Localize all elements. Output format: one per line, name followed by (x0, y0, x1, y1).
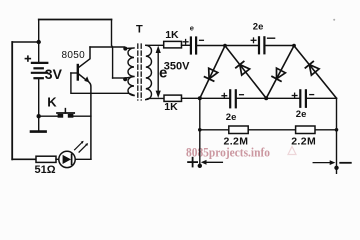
diode D4 cathode bar (305, 62, 313, 68)
diode D3 line (266, 46, 294, 99)
node D bottom rail (264, 96, 268, 100)
ground bar (31, 130, 46, 133)
capacitor C3 plate right (235, 90, 237, 107)
diode D3 cathode bar (272, 77, 281, 82)
battery plus sign (25, 56, 30, 61)
capacitor C2 minus (268, 37, 275, 39)
svg-text:2e: 2e (226, 112, 237, 123)
capacitor C4 plate left (299, 90, 301, 107)
wire node A to C2 (225, 45, 258, 47)
wire to left frame (12, 41, 39, 43)
wire center tap (113, 77, 126, 79)
output minus sign (340, 162, 351, 164)
output minus arrow (313, 162, 331, 164)
resistor R2 1K bottom (164, 95, 182, 101)
wire top rail drop to center tap (112, 20, 113, 79)
wire C3 to node D (236, 97, 266, 99)
wire switch right (73, 115, 91, 117)
wire resistor to LED (56, 158, 59, 160)
switch K actuator bar (57, 112, 74, 114)
EMF arrowhead down (156, 91, 161, 98)
diode D2 cathode bar (236, 62, 244, 68)
lower rail 2.2M (200, 129, 337, 131)
svg-text:3V: 3V (45, 66, 63, 82)
transformer core dashed lines (137, 44, 139, 100)
transformer T secondary winding (146, 45, 152, 99)
transistor Q1 emitter (79, 74, 87, 81)
node switch-wire junction (37, 114, 41, 118)
battery BT 3V (32, 63, 47, 78)
svg-text:K: K (47, 95, 57, 110)
capacitor C1 plate left (190, 38, 192, 54)
EMF arrowhead up (156, 46, 161, 53)
svg-text:8050: 8050 (62, 50, 86, 61)
wire C2 to node B (264, 45, 294, 47)
wire battery positive riser (38, 20, 40, 62)
node lower rail left (198, 128, 202, 132)
wire left frame (11, 42, 13, 159)
resistor R1 1K top (164, 41, 182, 48)
wire secondary top (146, 44, 164, 46)
capacitor C2 plus (251, 38, 256, 43)
wire R1 to C1 (182, 44, 191, 46)
diode D1 cathode bar (205, 77, 214, 81)
wire secondary bottom (146, 98, 164, 99)
wire switch left (39, 115, 58, 117)
svg-text:2e: 2e (296, 109, 307, 120)
EMF arrow 350V line (157, 50, 159, 94)
diode D2 line (225, 46, 266, 99)
resistor R4 2.2M (296, 126, 315, 134)
diode D1 triangle (209, 68, 218, 79)
capacitor C4 minus (310, 94, 314, 96)
node center tap dot (123, 77, 127, 81)
svg-text:1K: 1K (165, 29, 179, 41)
wire C4 to node E (306, 97, 337, 99)
diode D4 line (294, 46, 337, 99)
node primary top dot (123, 47, 127, 51)
node A top rail (223, 44, 227, 48)
svg-text:e: e (190, 23, 194, 32)
wire top rail oscillator (39, 19, 112, 21)
speck top right (333, 19, 335, 21)
wire battery negative lead (38, 79, 40, 130)
diode D3 triangle (277, 68, 286, 79)
switch K contact left (58, 114, 64, 118)
svg-text:2.2M: 2.2M (291, 135, 316, 147)
transistor Q1 base bar (77, 65, 79, 80)
transistor Q1 emitter arrow (84, 76, 89, 82)
wire output plus riser (199, 98, 201, 166)
capacitor C1 minus (200, 39, 204, 41)
node C bottom rail left (198, 96, 202, 100)
LED light arrow 2 (79, 144, 87, 152)
capacitor C3 plus (222, 93, 227, 98)
LED triangle (63, 155, 71, 164)
wire node C to C3 (200, 97, 230, 99)
capacitor C3 plate left (229, 90, 231, 107)
capacitor C4 plate right (305, 90, 307, 107)
capacitor C1 plate right (195, 38, 197, 54)
LED circle (59, 151, 75, 167)
diode D4 triangle (309, 65, 319, 76)
svg-text:2.2M: 2.2M (224, 135, 249, 147)
node B top rail (292, 44, 296, 48)
svg-text:350V: 350V (164, 61, 190, 73)
wire collector to primary top (90, 46, 125, 48)
capacitor C1 plus (183, 40, 188, 45)
wire bottom left (12, 158, 36, 160)
wire node D to C4 (266, 97, 299, 99)
svg-text:T: T (136, 24, 143, 36)
transistor Q1 base lead (71, 72, 77, 74)
diode D1 line (200, 46, 225, 99)
capacitor C2 plate right (263, 37, 265, 53)
capacitor C2 plate left (258, 37, 260, 53)
wire bottom to LED riser (75, 158, 91, 160)
capacitor C3 minus (240, 94, 244, 96)
switch K contact right (68, 114, 74, 118)
resistor R3 2.2M (229, 126, 248, 134)
svg-text:2e: 2e (253, 22, 264, 33)
LED cathode bar (71, 154, 73, 164)
output plus sign (188, 158, 197, 167)
wire base feedback L (71, 73, 134, 95)
svg-text:51Ω: 51Ω (35, 164, 56, 176)
node battery plus junction (37, 40, 41, 44)
wire emitter down (89, 82, 91, 159)
wire output minus riser (336, 98, 338, 173)
transformer T primary winding (125, 48, 134, 96)
capacitor C4 plus (292, 93, 297, 98)
transistor Q1 collector (79, 47, 90, 68)
node lower rail right (335, 128, 339, 132)
switch K stem (64, 109, 66, 113)
wire C1 to node A (196, 45, 225, 47)
output plus arrow (205, 161, 223, 163)
resistor R 51ohm (36, 156, 56, 162)
diode D2 triangle (240, 65, 250, 76)
node output minus terminal (334, 166, 338, 170)
svg-text:1K: 1K (164, 101, 178, 113)
node output plus terminal (198, 164, 202, 168)
watermark logo triangle (288, 147, 296, 155)
wire R2 to node C (182, 97, 200, 99)
LED light arrow 1 (75, 142, 83, 150)
